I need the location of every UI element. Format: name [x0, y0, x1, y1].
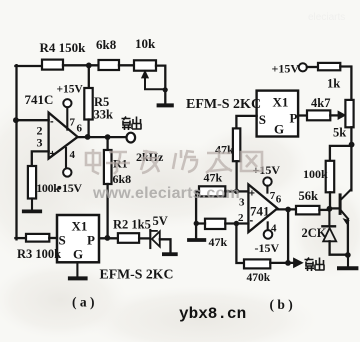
wire pin7 right [266, 186, 268, 193]
svg-text:R4 150k: R4 150k [40, 40, 87, 55]
resistor R4 150k [42, 60, 63, 70]
wire pin6 [277, 208, 296, 210]
svg-text:3: 3 [239, 197, 245, 209]
wire pot wiper [145, 77, 165, 90]
wire pin3 right [237, 190, 249, 192]
ground (zener) [164, 252, 176, 256]
watermark 电子发烧友网 [86, 149, 262, 174]
potentiometer 10k [134, 60, 156, 70]
svg-text:4k7: 4k7 [311, 96, 330, 110]
node output [285, 260, 291, 266]
svg-text:1k: 1k [327, 77, 340, 91]
wire pin2 to 470k [236, 224, 244, 264]
wire R1 bottom [106, 184, 108, 238]
svg-text:( b ): ( b ) [270, 297, 293, 312]
svg-text:2CK: 2CK [302, 226, 327, 240]
wire 56k right [319, 209, 327, 211]
resistor 6k8 [99, 60, 120, 70]
wire upper 47k leads [196, 191, 237, 238]
wire R1 top [106, 138, 108, 150]
node lower47k-gnd [194, 221, 199, 226]
glyph 输出 right output [305, 258, 325, 272]
wire emitter down [347, 219, 349, 255]
svg-text:7: 7 [70, 117, 76, 129]
wire R2 to zener [139, 237, 149, 239]
wire R5 top stem [88, 66, 90, 88]
wire base [331, 207, 339, 209]
wire R3 to S [49, 237, 57, 239]
svg-text:10k: 10k [135, 36, 156, 51]
wire pin3 input [32, 151, 49, 166]
svg-text:47k: 47k [209, 235, 228, 249]
svg-text:S: S [59, 233, 66, 248]
wire 100k bottom [329, 192, 331, 207]
terminal +15V circle (pin7) [63, 99, 71, 107]
transistor Q1 [339, 195, 342, 214]
wire lower 47k leads [196, 222, 248, 224]
op-amp U1 741C [49, 113, 78, 159]
svg-text:3: 3 [37, 136, 43, 150]
wire 470k to output [270, 262, 293, 264]
resistor 47k (upper) [199, 186, 225, 196]
node P junction [105, 235, 111, 241]
svg-text:( a ): ( a ) [72, 295, 95, 310]
svg-text:100k: 100k [303, 167, 328, 181]
wire feedback vertical [287, 210, 289, 263]
node R1-output [105, 134, 111, 140]
svg-text:X1: X1 [72, 219, 88, 234]
svg-text:www.eleciarts.com: www.eleciarts.com [92, 185, 240, 202]
svg-text:15V: 15V [62, 181, 82, 195]
svg-text:+: + [50, 149, 56, 160]
svg-text:X1: X1 [273, 95, 289, 110]
wire top feed [15, 65, 42, 67]
svg-text:4: 4 [70, 149, 76, 161]
svg-text:EFM-S 2KC: EFM-S 2KC [186, 97, 261, 112]
node R5 tap [86, 63, 92, 69]
wire 4k7 wiper arrow [330, 114, 338, 116]
svg-text:G: G [274, 121, 284, 136]
svg-text:R2 1k5: R2 1k5 [113, 218, 151, 232]
wire pin7 [66, 107, 68, 129]
node base junction [327, 206, 333, 212]
resistor R5 33k [84, 88, 92, 120]
svg-text:6: 6 [276, 194, 282, 206]
svg-text:+15V: +15V [57, 84, 84, 96]
wire 100k to ground [31, 199, 33, 210]
svg-text:2: 2 [238, 212, 244, 224]
resistor R1 6k8 [104, 150, 112, 184]
arrow output [294, 258, 303, 267]
zener D1 5V [149, 230, 151, 248]
svg-text:S: S [259, 112, 266, 127]
terminal +15V circle (pin7 right) [263, 177, 271, 185]
svg-text:56k: 56k [299, 189, 319, 203]
svg-text:P: P [87, 233, 95, 248]
node emitter-gnd [345, 252, 351, 258]
svg-text:ybx8.cn: ybx8.cn [179, 305, 246, 323]
wire R4 to 6k8 [63, 64, 99, 66]
ground (47k pair) [189, 238, 204, 242]
oscillator module X1 (EFM-S 2KC) [257, 91, 299, 137]
resistor 100k (pin3 bias) [28, 166, 36, 199]
resistor 56k [296, 206, 319, 215]
wire G to ground [76, 262, 78, 276]
ground (10k pot) [159, 103, 172, 107]
svg-text:6k8: 6k8 [96, 37, 117, 52]
wire S feed [236, 116, 256, 128]
svg-text:+: + [249, 189, 255, 200]
svg-text:G: G [73, 247, 83, 262]
node pin2 right [234, 221, 239, 226]
wire +15V to 1k [307, 66, 318, 68]
wire pin4 [65, 148, 67, 168]
wire left rail [15, 65, 17, 239]
wire diode to emitter [330, 241, 348, 254]
svg-text:470k: 470k [247, 272, 271, 284]
svg-text:eleciarts: eleciarts [308, 12, 345, 23]
wire pin4 right [267, 222, 269, 230]
terminal +15V circle (top right) [299, 63, 307, 71]
node rail-100k [349, 142, 355, 148]
resistor 47k (S) [233, 128, 240, 161]
wire to ground [347, 255, 349, 266]
ground (100k) [24, 209, 40, 213]
svg-text:-: - [50, 116, 54, 128]
wire 100k branch [330, 146, 352, 161]
wire 47k to pin3 [235, 161, 237, 191]
resistor 47k (lower) [205, 219, 225, 229]
wire pot right to ground [156, 66, 165, 104]
node pin6-feedback [285, 207, 291, 213]
node pot-ground [163, 87, 168, 92]
terminal -15V circle (pin4 right) [264, 230, 273, 239]
diode 2CK [328, 211, 330, 226]
node pin2 [13, 117, 19, 123]
svg-text:33k: 33k [94, 108, 114, 122]
resistor R2 1k5 [118, 233, 139, 243]
svg-text:5V: 5V [153, 214, 168, 228]
svg-text:6: 6 [77, 123, 83, 135]
svg-text:R3 100k: R3 100k [17, 247, 61, 261]
resistor 470k [244, 259, 270, 268]
svg-text:-15V: -15V [255, 241, 280, 255]
wire rail below pot [350, 127, 352, 190]
glyph 输出 left output [122, 117, 142, 131]
svg-text:100k: 100k [36, 181, 60, 195]
wire R3 feed [15, 237, 26, 239]
svg-text:+15V: +15V [272, 62, 300, 76]
resistor 1k [318, 63, 340, 70]
node R5-output [85, 134, 91, 140]
resistor R3 100k [26, 234, 49, 242]
terminal output circle [127, 133, 136, 143]
ground (right bottom) [339, 266, 356, 270]
svg-text:741C: 741C [25, 92, 54, 107]
wire pin2 input [15, 119, 48, 121]
op-amp U2 741 [248, 184, 277, 232]
wire P to junction [99, 237, 118, 239]
terminal 15V circle (pin4) [63, 168, 71, 176]
wire output pin6 [78, 136, 127, 138]
svg-text:5k: 5k [333, 126, 346, 140]
svg-text:EFM-S 2KC: EFM-S 2KC [100, 267, 174, 282]
resistor 4k7 [307, 110, 330, 120]
wire P to 4k7 [298, 114, 307, 116]
svg-text:P: P [290, 111, 298, 126]
potentiometer 5k [345, 100, 353, 127]
wire R5 bottom stem [87, 120, 89, 138]
svg-text:-: - [250, 215, 254, 227]
resistor 100k (right) [326, 161, 335, 193]
wire zener to ground [160, 239, 171, 252]
wire 1k to rail [340, 67, 351, 100]
svg-text:4: 4 [271, 223, 277, 235]
ground (X1 left) [70, 276, 86, 280]
node pin3 [234, 189, 239, 194]
wire 6k8 to 10k [119, 64, 134, 66]
oscillator module X1 (EFM-S 2KC) [57, 215, 99, 262]
